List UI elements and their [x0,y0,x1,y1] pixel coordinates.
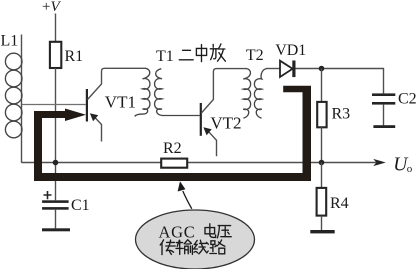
wire VD1 node to R3 [321,69,323,102]
ground R4 [310,230,334,233]
AGC thick feedback path (right arm from detector) [283,86,311,173]
label 电压 (voltage) [205,224,231,238]
node +V supply label [42,0,61,15]
transistor VT1 [87,68,146,141]
callout arrow from ellipse to AGC path [178,181,192,209]
svg-text:AGC: AGC [159,223,196,242]
wire L1 tap to VT1 base [22,104,86,106]
svg-text:VD1: VD1 [275,42,306,59]
capacitor C1 [42,191,90,228]
svg-text:R4: R4 [330,195,349,212]
AGC thick feedback path (left arm with arrow to VT1 base) [34,109,86,174]
resistor R4 [317,188,349,216]
wire R4 to ground [321,216,323,230]
svg-text:C2: C2 [398,91,417,108]
svg-text:R1: R1 [65,48,84,65]
wire +V to R1 [55,14,57,43]
svg-text:VT1: VT1 [105,92,136,111]
node junction dot R3/R4 bus [319,160,325,166]
svg-text:L1: L1 [1,33,19,50]
node junction dot R1/C1 bus [53,160,59,166]
ground C2 [373,125,395,128]
node junction dot VD1 output [319,66,325,72]
wire bus to R4 [321,163,323,188]
output arrowhead and U_o label [373,155,413,176]
callout ellipse AGC 电压传输线路 [136,210,255,269]
ground C1 [42,228,70,231]
resistor R2 [161,140,187,168]
svg-text:R2: R2 [163,140,182,157]
transformer T2 [243,47,267,118]
transistor VT2 [201,69,247,157]
label 二中放 (second IF amplifier) [179,44,225,62]
svg-text:+V: +V [42,0,61,15]
wire R3 to output bus [321,127,323,162]
wire main horizontal bus to output [22,162,377,164]
svg-text:R3: R3 [332,105,351,122]
capacitor C2 [372,91,417,126]
svg-text:o: o [407,163,413,175]
resistor R1 [50,42,83,68]
inductor L1 [1,33,23,163]
diode VD1 [266,42,384,94]
wire R1 to C1 [55,68,57,200]
svg-text:T2: T2 [246,47,264,64]
AGC thick feedback path (bottom bar) [34,173,311,181]
label 传输线路 (transmission line) [160,240,225,255]
resistor R3 [317,102,350,127]
svg-text:VT2: VT2 [210,113,241,132]
svg-text:T1: T1 [156,48,174,65]
transformer T1 [135,48,200,116]
svg-text:C1: C1 [71,197,90,214]
